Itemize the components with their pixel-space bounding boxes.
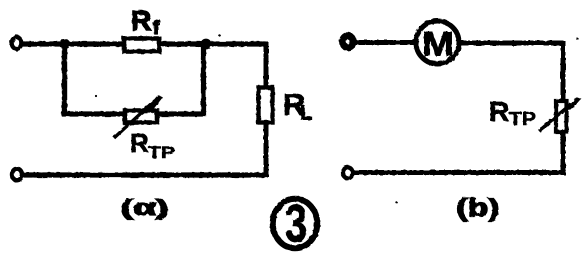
svg-text:R: R [130,128,149,158]
svg-text:3: 3 [285,195,307,253]
svg-text:R: R [131,5,151,36]
svg-text:TP: TP [509,108,536,129]
svg-text:(b): (b) [457,194,500,222]
svg-text:R: R [489,96,509,127]
svg-text:M: M [422,26,454,64]
svg-text:TP: TP [148,143,175,162]
svg-text:L: L [300,103,312,125]
svg-text:(α): (α) [121,195,169,220]
svg-text:f: f [153,18,160,39]
